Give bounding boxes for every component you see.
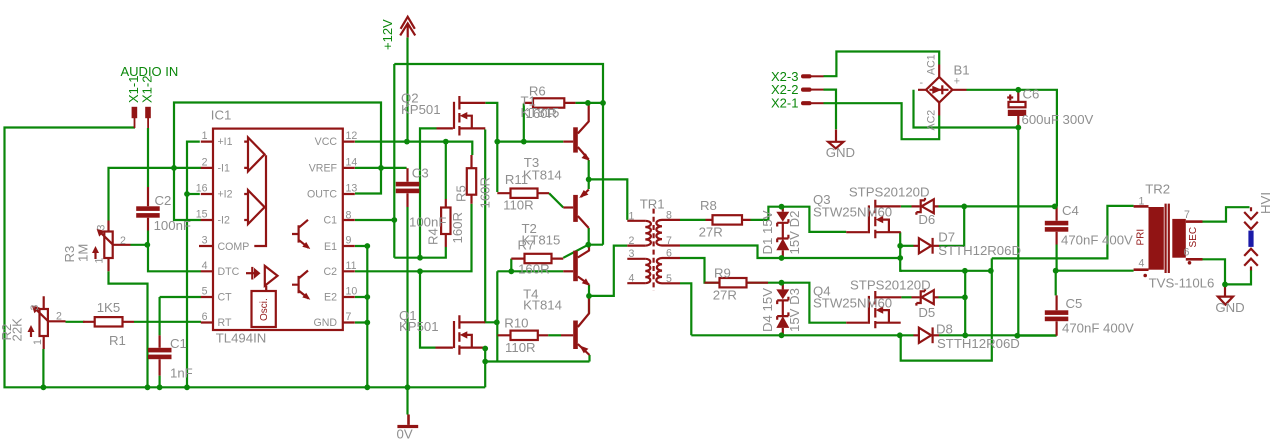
wire: row 141.6 Q2drain to T1 base — [497, 141, 563, 143]
wire: row 270.6 west — [900, 270, 991, 272]
junction at 899.8,335.3 — [897, 332, 903, 338]
junction at 603,102.9 — [600, 100, 606, 106]
svg-text:7: 7 — [346, 311, 352, 323]
IC1 amp triangle 2 — [248, 190, 265, 224]
wire: CT row — [160, 296, 201, 298]
svg-text:R8: R8 — [700, 198, 717, 213]
wire: R7 diagonal to node — [563, 245, 588, 258]
svg-text:VCC: VCC — [315, 136, 338, 148]
wire: x420 lower C2 net to Q1 gate — [420, 271, 436, 347]
svg-text:R10: R10 — [504, 315, 528, 330]
wire: VREF loop x174 down to pin 15 — [174, 103, 381, 221]
wire: x992 switch link — [901, 258, 992, 360]
wire: x497 down to R11 left — [496, 142, 498, 192]
zener D2 — [777, 235, 788, 242]
svg-text:D4 15V: D4 15V — [760, 288, 775, 332]
wire: T2e T4c node — [588, 285, 590, 314]
junction at 781.5,258 — [779, 255, 785, 261]
svg-text:Osci.: Osci. — [259, 298, 270, 321]
wire: bridge plus to C6 row and down to bus — [967, 90, 1057, 207]
capacitor C1 — [148, 348, 172, 353]
junction at 420,271.3 — [417, 268, 423, 274]
zener D4 — [777, 312, 788, 319]
junction at 147.5,387.3 — [145, 384, 151, 390]
svg-text:4: 4 — [1139, 258, 1145, 270]
svg-text:110R: 110R — [503, 198, 534, 213]
svg-text:STW25NM60: STW25NM60 — [813, 205, 892, 220]
IC1 left pins — [199, 142, 213, 323]
wire: E1 E2 GND pins common vertical — [355, 246, 367, 387]
wire: D7 anode row — [900, 245, 913, 247]
svg-text:1K5: 1K5 — [97, 300, 120, 315]
resistor R4 — [441, 208, 450, 235]
wire: C5 top — [1055, 271, 1057, 296]
junction at 485.2,361.5 — [482, 359, 488, 365]
capacitor C6 polarized — [1017, 90, 1019, 128]
svg-text:R5: R5 — [454, 185, 469, 202]
svg-text:R1: R1 — [109, 333, 126, 348]
wire: R4 bottom to row 257.7 — [394, 247, 446, 258]
svg-text:160R: 160R — [518, 262, 550, 277]
svg-text:PRI: PRI — [1136, 229, 1147, 246]
svg-text:22K: 22K — [10, 318, 25, 342]
wire: T2e node row to TR1 pin2 — [589, 246, 627, 296]
svg-text:3: 3 — [202, 235, 208, 247]
pot R2 — [40, 309, 48, 336]
svg-text:R7: R7 — [518, 238, 535, 253]
junction at 589,295.9 — [586, 293, 592, 299]
diode D6 schottky — [922, 199, 934, 213]
wire: HVI bottom to GND dot — [1225, 270, 1251, 284]
svg-text:6: 6 — [666, 247, 672, 259]
wire: C2 bottom down then right to DTC pin 4 — [148, 231, 201, 272]
wire: y64 top row — [394, 64, 603, 103]
wire: R7 left down to row 270.6 — [510, 259, 512, 272]
wire: D6 cathode to bus — [939, 205, 1055, 207]
wire: C5 bottom row to x1018 — [1017, 335, 1056, 337]
svg-text:8: 8 — [666, 209, 672, 221]
svg-text:CT: CT — [218, 292, 233, 304]
svg-text:11: 11 — [346, 260, 357, 272]
wire: T4 emitter row 361.5 — [485, 360, 589, 362]
junction at 159.6,387.3 — [157, 384, 163, 390]
junction at 1225,284.4 — [1222, 282, 1228, 288]
mosfet Q2 KP501 — [437, 127, 453, 129]
svg-text:RT: RT — [218, 317, 232, 329]
transistor T4 KT814 — [573, 321, 578, 350]
svg-text:110R: 110R — [505, 340, 536, 355]
svg-text:1M: 1M — [76, 244, 91, 262]
svg-text:D6: D6 — [918, 212, 935, 227]
svg-text:X1-2: X1-2 — [140, 76, 155, 103]
svg-text:-I2: -I2 — [218, 214, 230, 226]
resistor R10 — [511, 331, 538, 340]
resistor R7 — [525, 254, 552, 263]
wire: pin11 row to R5 bottom — [355, 204, 472, 271]
connector X1-1 — [132, 107, 138, 118]
junction at 420,257.7 — [417, 255, 423, 261]
svg-text:5: 5 — [666, 273, 672, 285]
svg-text:+I2: +I2 — [218, 188, 233, 200]
wire: TR2 pin6 to GND — [1203, 259, 1226, 284]
svg-text:15V D3: 15V D3 — [787, 288, 802, 332]
svg-text:STW25NM60: STW25NM60 — [813, 296, 892, 311]
wire: RT row with R1 inline — [66, 321, 202, 323]
wire: R6 right row with dots — [575, 102, 603, 104]
svg-text:16: 16 — [196, 183, 208, 195]
capacitor C3 — [396, 182, 420, 187]
wire: VREF pin14 stub — [355, 167, 381, 169]
transistor T3 KT814 — [573, 195, 578, 222]
svg-text:AC1: AC1 — [926, 54, 938, 75]
connector X1-2 — [145, 107, 151, 118]
svg-text:R4: R4 — [426, 228, 441, 245]
junction at 367.3,246 — [364, 243, 370, 249]
resistor R1 1K5 — [95, 317, 123, 326]
svg-text:-: - — [920, 77, 924, 89]
wire: T4e to row — [588, 355, 590, 362]
junction at 587.9,102.9 — [585, 100, 591, 106]
diode D7 — [919, 238, 931, 253]
junction at 43.4,387.3 — [41, 384, 47, 390]
junction at 367.3,297 — [364, 294, 370, 300]
IC1 amp triangle 1 — [248, 137, 265, 171]
capacitor C5 — [1045, 310, 1069, 315]
svg-text:SEC: SEC — [1188, 227, 1199, 248]
ground symbol GND right — [1218, 284, 1233, 304]
svg-text:2: 2 — [120, 235, 126, 247]
wire: X1-1 left loop to bottom rail — [5, 128, 486, 388]
connector X2-1 — [801, 101, 812, 105]
supply 0V symbol — [397, 425, 418, 428]
junction at 1017.3,335.7 — [1014, 333, 1020, 339]
wire: R11 diagonal to T3 base — [549, 193, 563, 207]
wire: TR1 pin7 jog to row 257.9 — [680, 246, 900, 259]
junction at 485.2,348.5 — [482, 346, 488, 352]
junction at 497.3,141.6 — [494, 139, 500, 145]
mosfet Q4 STW25NM60 — [846, 322, 868, 324]
svg-text:27R: 27R — [713, 288, 737, 303]
wire: x420 upper C1 net to Q2 gate — [420, 128, 437, 257]
resistor R6 — [533, 98, 564, 107]
wire: VCC row to R5 top — [355, 142, 472, 155]
wire: node row to x603 corner — [602, 103, 604, 245]
capacitor C4 — [1045, 221, 1069, 226]
junction at 588.3,244.7 — [585, 242, 591, 248]
svg-text:470nF 400V: 470nF 400V — [1062, 321, 1134, 336]
svg-text:KT814: KT814 — [523, 298, 562, 313]
wire: Q3 drain to D6 — [901, 205, 912, 207]
svg-text:600uF 300V: 600uF 300V — [1022, 112, 1094, 127]
svg-text:KP501: KP501 — [399, 319, 439, 334]
svg-text:C4: C4 — [1062, 203, 1079, 218]
wire: +12V down — [406, 38, 408, 142]
svg-text:VREF: VREF — [309, 162, 338, 174]
svg-text:STPS20120D: STPS20120D — [850, 278, 931, 293]
ground symbol GND left — [828, 130, 843, 149]
wire: row 258.4 east to TR2 pin1 — [992, 206, 1134, 259]
IC1 amp output line to COMP — [254, 155, 266, 246]
svg-text:1: 1 — [1139, 196, 1145, 208]
junction at 964.9,297.3 — [962, 294, 968, 300]
svg-text:1: 1 — [94, 258, 106, 264]
wire: D8 cathode jog up — [964, 271, 966, 336]
IC1 DTC arrow and comparator — [246, 272, 259, 274]
svg-text:C1: C1 — [323, 214, 337, 226]
IC1 Osci box — [252, 291, 276, 327]
svg-text:+I1: +I1 — [218, 136, 233, 148]
wire: R3 top to pin2 row — [109, 168, 202, 221]
svg-text:15: 15 — [196, 209, 208, 221]
svg-text:HVI: HVI — [1258, 192, 1273, 214]
wire: Q4 drain to D5 — [901, 296, 911, 298]
junction at 523.8,141.6 — [521, 139, 527, 145]
wire: Q3 source down to row 257.9 and corner row 270.6 — [900, 232, 902, 271]
wire: TR1 pin8 to R8 — [680, 219, 706, 221]
wire: D5 cathode jog up — [939, 296, 965, 298]
wire: x497 lower segment — [496, 271, 498, 361]
junction at 394.3,220 — [391, 217, 397, 223]
zener D1 — [776, 212, 789, 222]
svg-text:STPS20120D: STPS20120D — [849, 185, 930, 200]
transformer TR2 primary — [1149, 207, 1164, 270]
svg-text:-I1: -I1 — [218, 162, 230, 174]
resistor R8 — [713, 215, 743, 224]
zener D3 — [776, 289, 789, 299]
junction at 174,167.9 — [171, 165, 177, 171]
svg-text:KP501: KP501 — [401, 102, 441, 117]
junction at 1018.3,127.5 — [1015, 125, 1021, 131]
wire: X2-1 loop to AC2 — [824, 103, 940, 139]
svg-text:5: 5 — [202, 286, 208, 298]
supply +12V symbol — [400, 17, 415, 38]
junction at 1055.7,270.7 — [1053, 268, 1059, 274]
junction at 964.2,206.4 — [961, 204, 967, 210]
wire: Q2 source down to Q1 drain — [485, 130, 497, 323]
wire: C4 bottom to dot 270.7 — [1055, 245, 1057, 271]
svg-text:2: 2 — [56, 311, 62, 323]
svg-text:1: 1 — [32, 339, 44, 345]
junction at 496.8,322.3 — [494, 319, 500, 325]
wire: T3c T2c node verticals — [588, 228, 603, 245]
svg-text:GND: GND — [1215, 300, 1244, 315]
svg-text:E1: E1 — [324, 241, 337, 253]
transformer TR1 — [652, 209, 654, 291]
wire: R3 bottom jog to bottom rail — [109, 271, 148, 387]
svg-text:9: 9 — [346, 235, 352, 247]
svg-text:TR1: TR1 — [640, 197, 665, 212]
svg-text:0V: 0V — [397, 427, 413, 442]
svg-text:4: 4 — [628, 273, 634, 285]
connector X2-2 — [801, 88, 812, 92]
resistor R11 — [511, 189, 538, 198]
svg-text:D1 15V: D1 15V — [760, 210, 775, 254]
svg-text:7: 7 — [1184, 209, 1190, 221]
svg-text:160R: 160R — [478, 177, 493, 209]
junction at 367.3,387.3 — [364, 384, 370, 390]
junction at 900.2,258 — [897, 255, 903, 261]
svg-text:STTH12R06D: STTH12R06D — [938, 243, 1021, 258]
IC1 amp input stubs — [244, 142, 248, 220]
junction at 588.7,179.4 — [586, 177, 592, 183]
wire: row 270.7 east to TR2 pin4 — [1056, 270, 1134, 272]
junction at 781.5,335.3 — [779, 332, 785, 338]
svg-text:8: 8 — [346, 209, 352, 221]
svg-text:10: 10 — [346, 286, 358, 298]
junction at 1018.3,89.8 — [1015, 87, 1021, 93]
wire: TR1 pin5 jog down to row 335.3 — [680, 283, 691, 335]
svg-text:C2: C2 — [323, 266, 337, 278]
junction at 781.5,206.7 — [779, 204, 785, 210]
bridge B1 — [926, 77, 952, 103]
transistor T1 KT815 — [573, 127, 578, 152]
wire: row 270.6 right part to T2 base — [497, 270, 563, 272]
capacitor C2 — [136, 206, 160, 211]
diode D5 schottky — [922, 290, 934, 304]
svg-text:TL494IN: TL494IN — [216, 331, 267, 346]
svg-text:100nF: 100nF — [154, 218, 191, 233]
svg-text:12: 12 — [346, 130, 358, 142]
svg-text:1nF: 1nF — [170, 366, 193, 381]
svg-text:14: 14 — [346, 156, 358, 168]
wire: x394 vertical y64 to row257.7 — [393, 64, 395, 258]
wire: R3 pin2 stub green part — [131, 244, 148, 246]
wire: Q2 drain jog to row 141.6 — [485, 103, 497, 142]
wire: pin1/pin16 jog x187 down to rail — [187, 142, 200, 388]
svg-text:4: 4 — [202, 260, 208, 272]
wire: D7 cathode jog up to bus — [939, 206, 964, 245]
wire: TR2 pin7 to HVI top — [1203, 207, 1250, 221]
wire: C6 line down — [1017, 128, 1019, 336]
svg-text:15V D2: 15V D2 — [787, 211, 802, 255]
wire: bridge minus down to C6 bottom row — [914, 90, 1019, 128]
wire: pin16 stub — [187, 193, 200, 195]
wire: 0V stem — [406, 387, 408, 414]
wire: R2 bottom to rail — [42, 349, 44, 387]
wire: C1 line CT row down through C1 to rail — [159, 297, 161, 387]
wire: R4 top to VCC row — [445, 142, 447, 199]
svg-text:D8: D8 — [936, 322, 953, 337]
svg-text:3: 3 — [628, 248, 634, 260]
svg-text:IC1: IC1 — [211, 108, 232, 123]
svg-text:+12V: +12V — [380, 19, 395, 50]
svg-text:GND: GND — [826, 145, 855, 160]
junction at 781.5,282.7 — [779, 280, 785, 286]
transformer TR2 secondary — [1172, 219, 1186, 258]
IC1 right pins — [343, 142, 355, 323]
svg-text:27R: 27R — [699, 225, 723, 240]
svg-text:COMP: COMP — [218, 241, 250, 253]
svg-text:2: 2 — [202, 156, 208, 168]
IC1 inner transistor glyph C2 E2 — [292, 271, 309, 299]
svg-text:STTH12R06D: STTH12R06D — [937, 336, 1020, 351]
wire: R10 diagonal to T4 base — [548, 334, 561, 336]
svg-text:R9: R9 — [714, 266, 731, 281]
diode D8 — [919, 328, 931, 343]
wire: VREF jog down to OUTC pin 13 — [355, 168, 381, 194]
junction at 445.8,141.6 — [443, 139, 449, 145]
svg-text:D5: D5 — [918, 305, 935, 320]
svg-text:KT815: KT815 — [521, 105, 560, 120]
junction at 187,387.3 — [184, 384, 190, 390]
junction at 1054.7,206.4 — [1052, 204, 1058, 210]
junction at 381,167.9 — [378, 165, 384, 171]
svg-text:DTC: DTC — [218, 266, 240, 278]
wire: C3 bottom to rail — [406, 207, 408, 387]
svg-text:X2-1: X2-1 — [771, 96, 798, 111]
IC1 box — [213, 129, 343, 330]
junction at 187,194 — [184, 191, 190, 197]
svg-text:C5: C5 — [1066, 296, 1083, 311]
wire: row 335.3 to D8 and C5 — [691, 334, 1056, 336]
junction at 367.3,322.5 — [364, 320, 370, 326]
svg-text:7: 7 — [666, 235, 672, 247]
wire: R8 right to gate row jog to Q3 gate — [751, 207, 847, 232]
wire: X1-2 down to C2 top — [147, 128, 149, 187]
junction at 990.8,270.8 — [988, 268, 994, 274]
wire: X2-3 loop to AC1 — [824, 52, 940, 77]
svg-text:100nF: 100nF — [409, 215, 446, 230]
IC1 inner transistor glyph C1 E1 — [292, 220, 309, 248]
svg-text:6: 6 — [202, 311, 208, 323]
svg-text:C2: C2 — [155, 193, 172, 208]
wire: R6 left corner down — [523, 104, 525, 142]
junction at 407.5,387.3 — [405, 384, 411, 390]
transistor T2 KT815 — [573, 251, 578, 282]
resistor R5 — [467, 168, 476, 195]
connector HVI arrows — [1244, 207, 1258, 229]
svg-text:C3: C3 — [412, 166, 429, 181]
svg-text:GND: GND — [313, 317, 337, 329]
connector X2-3 — [801, 74, 812, 78]
svg-text:KT814: KT814 — [523, 168, 562, 183]
resistor R9 — [720, 278, 747, 287]
junction at 964.9,270.8 — [962, 268, 968, 274]
mosfet Q3 STW25NM60 — [846, 231, 868, 233]
junction at 965.2,335.3 — [962, 332, 968, 338]
wire: X2-2 to GND — [824, 90, 837, 130]
svg-text:1: 1 — [202, 130, 208, 142]
wire: T1e T3e node to TR1 pin1 — [589, 160, 628, 220]
wire: TR1 pin6 jog down to R9 — [680, 258, 720, 283]
svg-text:C6: C6 — [1023, 87, 1040, 102]
svg-text:2: 2 — [628, 235, 634, 247]
svg-text:160R: 160R — [450, 212, 465, 244]
junction at 147.3,244.8 — [144, 242, 150, 248]
junction at 900.2,245.8 — [897, 243, 903, 249]
svg-text:470nF 400V: 470nF 400V — [1061, 233, 1133, 248]
wire: VREF row to C3 top — [381, 167, 407, 169]
svg-text:C1: C1 — [170, 336, 187, 351]
svg-text:3: 3 — [29, 305, 41, 311]
svg-text:TR2: TR2 — [1145, 182, 1170, 197]
wire: pin8 row — [355, 219, 394, 221]
pot R3 — [104, 232, 112, 259]
junction at 406.9,141.6 — [404, 139, 410, 145]
svg-text:+: + — [954, 76, 960, 88]
svg-text:AC2: AC2 — [926, 110, 938, 131]
wire: R9 right to Q4 gate jog — [747, 283, 847, 323]
svg-text:TVS-110L6: TVS-110L6 — [1149, 276, 1215, 291]
svg-text:1: 1 — [628, 210, 634, 222]
junction at 511.3,271.3 — [508, 268, 514, 274]
svg-text:R11: R11 — [505, 172, 528, 187]
svg-text:E2: E2 — [324, 292, 337, 304]
wire: HVI blue link — [1248, 231, 1253, 247]
svg-text:13: 13 — [346, 183, 358, 195]
svg-text:3: 3 — [96, 225, 108, 231]
transformer TR2 core — [1166, 204, 1169, 273]
